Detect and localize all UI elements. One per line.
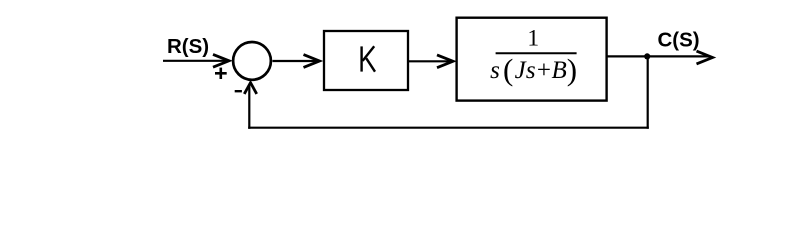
svg-text:B: B [552,57,567,84]
svg-text:R(S): R(S) [167,35,209,58]
svg-text:): ) [567,52,577,87]
svg-text:(: ( [503,52,513,87]
svg-text:C(S): C(S) [658,28,700,51]
svg-text:s: s [490,57,500,84]
svg-text:1: 1 [527,26,539,52]
svg-text:+: + [537,57,551,84]
svg-text:s: s [526,57,536,84]
